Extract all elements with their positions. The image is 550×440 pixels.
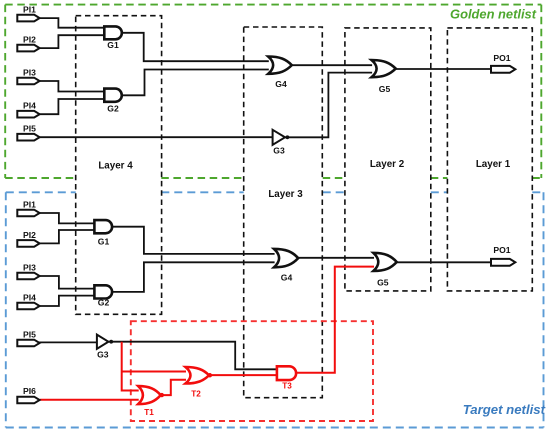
input PI2 — [17, 45, 39, 52]
Layer 4 box — [76, 16, 162, 315]
output PO1 (golden) — [491, 66, 515, 73]
wire G3 tap to T1 (red) — [122, 342, 139, 391]
target netlist boundary (blue dashed) — [6, 192, 544, 427]
svg-text:PI4: PI4 — [23, 293, 36, 303]
svg-text:G1: G1 — [98, 237, 110, 247]
svg-text:PI1: PI1 — [23, 5, 36, 15]
input PI2 (target) — [17, 240, 39, 247]
input PI3 — [17, 78, 39, 85]
node dot G3 output — [286, 135, 290, 139]
or gate G4 (target) — [274, 249, 298, 267]
input PI5 — [17, 134, 39, 141]
svg-text:G2: G2 — [98, 298, 110, 308]
wire T3 to G5 (red) — [296, 267, 374, 373]
and gate T3 (red) — [277, 366, 296, 380]
wire PI1 to G1 (target) — [39, 213, 95, 223]
svg-text:G5: G5 — [377, 278, 389, 288]
wire PI5 to G3 — [39, 136, 273, 138]
wire PI3 to G2 — [39, 81, 105, 92]
svg-text:Layer 3: Layer 3 — [268, 189, 303, 200]
svg-text:Layer 4: Layer 4 — [98, 161, 133, 172]
Layer 3 box — [244, 27, 323, 398]
svg-text:T2: T2 — [191, 389, 201, 398]
svg-text:PI2: PI2 — [23, 35, 36, 45]
input PI4 (target) — [17, 303, 39, 310]
wire G3 to T3 (black) — [108, 342, 277, 370]
input PI4 — [17, 111, 39, 118]
node dot T2 output — [208, 373, 212, 377]
svg-text:Target netlist: Target netlist — [463, 402, 546, 417]
wire PI1 to G1 — [39, 18, 105, 28]
wire G4 to G5 — [291, 64, 372, 66]
input PI3 (target) — [17, 273, 39, 280]
and gate G1 — [104, 26, 122, 39]
svg-text:Layer 1: Layer 1 — [476, 159, 511, 170]
input PI1 (target) — [17, 210, 39, 217]
buffer G3 (target) — [97, 335, 109, 349]
wire PI6 to T1 (red) — [40, 399, 139, 401]
svg-text:PI4: PI4 — [23, 101, 36, 111]
node dot G3 output (target) — [109, 340, 113, 344]
Layer 1 box — [447, 28, 532, 291]
wire PI3 to G2 (target) — [39, 276, 95, 289]
svg-text:PO1: PO1 — [493, 53, 510, 63]
svg-text:G2: G2 — [107, 104, 119, 114]
wire G3 to G5 — [285, 73, 372, 138]
and gate G1 (target) — [94, 220, 112, 233]
svg-text:PI6: PI6 — [23, 386, 36, 396]
wire PI2 to G1 (target) — [39, 230, 95, 243]
output PO1 (target) — [491, 259, 515, 266]
wire PI2 to G1 — [39, 35, 105, 48]
svg-text:G4: G4 — [275, 79, 287, 89]
svg-text:PI3: PI3 — [23, 263, 36, 273]
wire PI5 to G3 (target) — [39, 341, 97, 343]
svg-text:PI3: PI3 — [23, 68, 36, 78]
red inserted-gates box — [131, 321, 373, 421]
svg-text:G4: G4 — [281, 273, 293, 283]
wire T1 to T2 (red) — [161, 380, 186, 395]
golden netlist boundary (green dashed) — [5, 5, 541, 178]
wire G3 tap to T2 (red) — [122, 371, 186, 373]
input PI6 (target) — [17, 397, 39, 404]
wire G1 to G4 (target) — [112, 227, 275, 254]
wire PI4 to G2 (target) — [39, 296, 95, 306]
or gate T1 (red) — [138, 386, 161, 404]
wire G5 to PO1 (target) — [396, 261, 491, 263]
wire G1 to G4 — [122, 33, 269, 61]
svg-text:Golden netlist: Golden netlist — [450, 7, 537, 22]
input PI5 (target) — [17, 340, 39, 347]
svg-text:T1: T1 — [144, 408, 154, 417]
svg-text:Layer 2: Layer 2 — [370, 159, 405, 170]
svg-text:G1: G1 — [107, 40, 119, 50]
svg-text:PI2: PI2 — [23, 230, 36, 240]
Layer 2 box — [345, 28, 431, 291]
svg-text:PO1: PO1 — [493, 245, 510, 255]
and gate G2 — [104, 89, 121, 102]
or gate T2 (red) — [186, 367, 210, 384]
node dot T1 output — [160, 393, 164, 397]
wire PI4 to G2 — [39, 99, 105, 114]
buffer G3 — [273, 130, 285, 145]
svg-text:G3: G3 — [97, 350, 109, 360]
wire G4 to G5 (target) — [298, 257, 374, 259]
svg-text:G3: G3 — [273, 146, 285, 156]
wire G2 to G4 (target) — [112, 262, 275, 292]
svg-text:T3: T3 — [282, 382, 292, 391]
or gate G5 — [372, 60, 396, 77]
svg-text:PI1: PI1 — [23, 200, 36, 210]
input PI1 — [17, 15, 39, 22]
or gate G5 (target) — [373, 253, 396, 271]
svg-text:PI5: PI5 — [23, 330, 36, 340]
or gate G4 — [268, 57, 292, 74]
wire G2 to G4 — [122, 70, 269, 96]
wire T2 to T3 (red) — [209, 374, 277, 376]
wire G5 to PO1 — [395, 68, 491, 70]
svg-text:PI5: PI5 — [23, 124, 36, 134]
and gate G2 (target) — [94, 285, 112, 298]
svg-text:G5: G5 — [379, 84, 391, 94]
